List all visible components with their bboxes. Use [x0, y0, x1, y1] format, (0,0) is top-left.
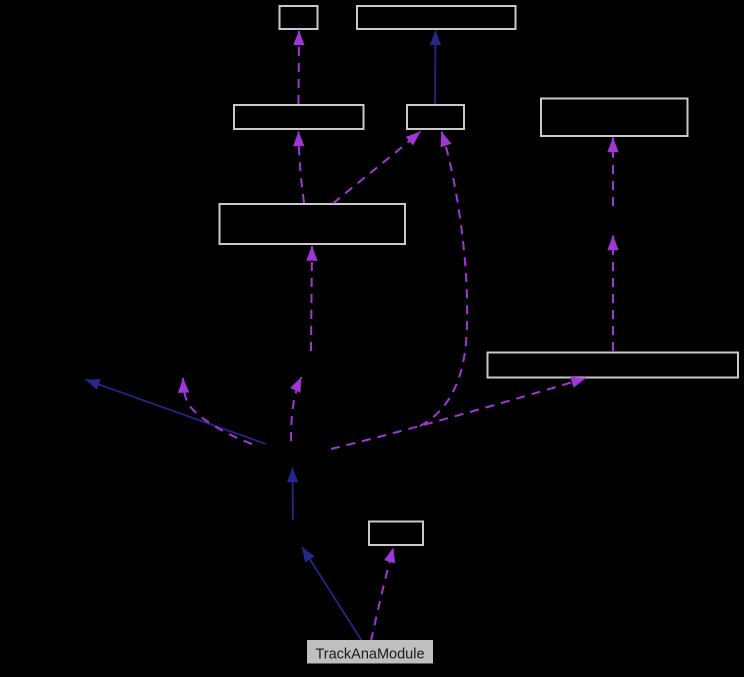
- edge K to L (solid blue vertical): [292, 468, 295, 521]
- edge C to A (dashed purple): [298, 31, 301, 105]
- node D (second row middle box): [407, 105, 464, 129]
- edge L to G (dashed purple): [331, 378, 586, 449]
- edge L to M (solid blue diagonal to invisible node): [85, 380, 266, 445]
- node H (small box above TrackAnaModule): [369, 522, 423, 546]
- edge TrackAnaModule to K (solid blue diagonal): [302, 547, 362, 641]
- edge L to N (dashed purple to invisible node): [183, 378, 252, 444]
- edge F to C (dashed purple): [299, 132, 305, 204]
- edge F to D (dashed purple diagonal): [333, 132, 421, 204]
- edge L to D (long dashed purple curve): [420, 132, 467, 427]
- edge G to J (dashed purple vertical lower): [612, 236, 614, 352]
- edge J to E (dashed purple vertical upper): [612, 138, 614, 207]
- edge D to B (solid blue): [434, 31, 437, 105]
- node E (second row right tall box): [541, 99, 688, 137]
- node G (right long box): [488, 353, 739, 378]
- edge TrackAnaModule to H (dashed purple): [371, 548, 394, 642]
- edge L to O (dashed purple short): [291, 377, 302, 441]
- svg-text:TrackAnaModule: TrackAnaModule: [315, 647, 424, 663]
- node TrackAnaModule (gray filled label box): [307, 640, 433, 664]
- node B (top wide box): [357, 6, 516, 29]
- edge O to F (dashed purple vertical): [311, 246, 312, 351]
- node F (third row tall box): [220, 204, 406, 244]
- node A (top-left small box): [280, 6, 318, 29]
- node C (second row left box): [234, 105, 364, 129]
